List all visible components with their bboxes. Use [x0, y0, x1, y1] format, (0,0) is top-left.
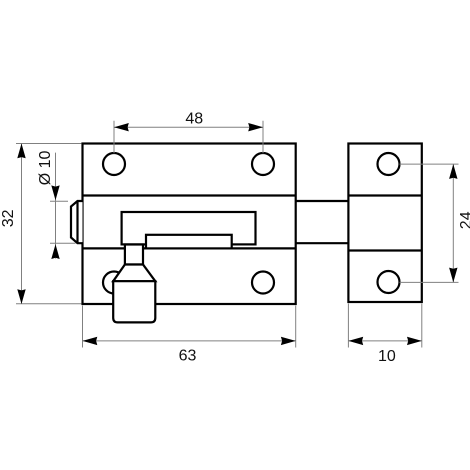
bolt bar — [146, 235, 232, 249]
guide window — [122, 212, 256, 244]
bolt rod bottom line — [296, 242, 349, 244]
dim 63 arrow left — [83, 337, 98, 345]
dim dia10 line — [55, 153, 57, 259]
dim 48 extension line left — [113, 121, 115, 153]
bottom-right screw hole — [252, 272, 274, 294]
dim 48 arrow left — [114, 123, 129, 131]
knob flare — [113, 265, 155, 282]
dim 10 extension line right — [421, 304, 423, 348]
dim 48 extension line right — [262, 121, 264, 153]
dim 32 extension line top — [16, 143, 82, 145]
dim 32 arrow bottom — [17, 289, 25, 304]
keeper staple top line — [348, 194, 421, 196]
dim 24 arrow top — [449, 164, 457, 179]
keeper bottom screw hole — [378, 271, 400, 293]
dim dia10 arrow bottom — [51, 244, 59, 259]
dim 24 extension line top — [400, 163, 459, 165]
dim 48 line — [114, 126, 263, 128]
dim dia10 extension line bottom — [50, 242, 76, 244]
svg-text:32: 32 — [0, 209, 17, 227]
svg-text:63: 63 — [179, 347, 197, 364]
dim 10 arrow left — [348, 337, 363, 345]
dim 32 arrow top — [17, 144, 25, 159]
dim 32 line — [21, 144, 23, 305]
barrel top line — [83, 194, 296, 196]
dim 24 line — [452, 164, 454, 282]
dim 10 arrow right — [407, 337, 422, 345]
dim 63 extension line right — [295, 306, 297, 348]
main plate outline — [83, 144, 296, 305]
keeper plate outline — [348, 144, 421, 303]
bolt end cap crease — [76, 201, 78, 243]
top-right screw hole — [252, 153, 274, 175]
svg-text:Ø 10: Ø 10 — [37, 150, 54, 185]
bolt rod top line — [296, 200, 349, 202]
keeper staple bottom line — [348, 249, 421, 251]
knob body — [113, 281, 155, 322]
barrel bottom line — [83, 247, 296, 249]
dim dia10 arrow top — [51, 185, 59, 200]
dim 32 extension line bottom — [16, 303, 82, 305]
dim 63 arrow right — [281, 337, 296, 345]
svg-text:10: 10 — [378, 348, 396, 365]
knob neck — [125, 245, 143, 265]
keeper top screw hole — [378, 153, 400, 175]
top-left screw hole — [103, 153, 125, 175]
bottom-left screw hole (behind knob) — [103, 272, 125, 294]
bolt end cap — [71, 201, 83, 243]
dim 63 line — [83, 340, 296, 342]
dim 48 arrow right — [248, 123, 263, 131]
dim 24 extension line bottom — [400, 281, 459, 283]
dim 24 arrow bottom — [449, 268, 457, 283]
dim dia10 extension line top — [50, 200, 68, 202]
svg-text:48: 48 — [185, 111, 203, 128]
dim 63 extension line left — [82, 306, 84, 348]
svg-text:24: 24 — [458, 211, 470, 229]
dim 10 line — [348, 340, 421, 342]
dim 10 extension line left — [347, 304, 349, 348]
